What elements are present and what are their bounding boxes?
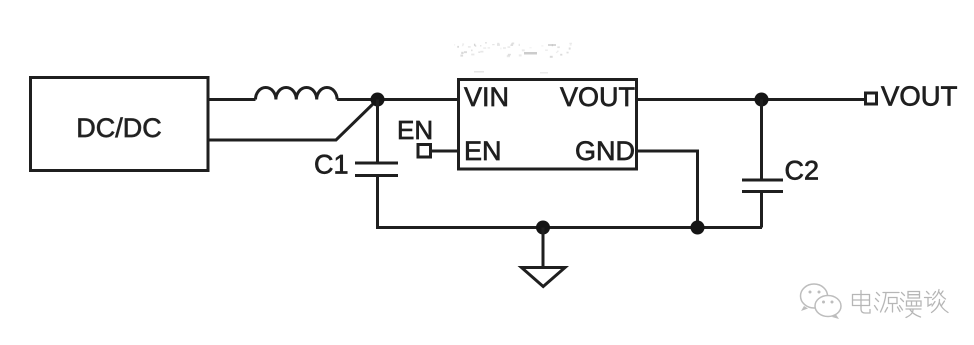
inductor L1 [256, 87, 338, 99]
ground symbol [522, 268, 566, 287]
capacitor C2 [742, 180, 783, 192]
svg-text:C1: C1 [314, 150, 349, 180]
node B junction dot [755, 93, 769, 107]
svg-text:DC/DC: DC/DC [76, 113, 162, 143]
watermark logo chat bubbles [801, 284, 842, 319]
svg-text:VOUT: VOUT [881, 81, 958, 112]
svg-text:EN: EN [397, 115, 433, 145]
wire: node B down to C2 [760, 100, 763, 179]
wire: C1 to ground rail [378, 177, 763, 228]
node D junction dot ground tap [536, 221, 550, 235]
watermark char 漫 [900, 292, 922, 318]
op-amp U1 regulator block [459, 80, 637, 170]
wire: inductor to VIN pin of U1 [337, 98, 458, 101]
wire: node A down to C1 [376, 100, 379, 162]
wire: ground stub [542, 228, 545, 267]
VOUT output terminal square [866, 93, 877, 104]
wire: EN terminal to EN pin [432, 150, 459, 153]
svg-text:EN: EN [464, 136, 502, 166]
wire: C2 to ground rail [760, 193, 763, 228]
watermark char 谈 [925, 290, 949, 313]
wire: GND pin to ground rail [637, 151, 698, 228]
DC/DC converter block [31, 78, 209, 171]
EN input terminal square [418, 145, 431, 158]
svg-text:VOUT: VOUT [560, 82, 635, 112]
watermark char 电 [853, 291, 871, 314]
node A junction dot [371, 93, 385, 107]
svg-text:C2: C2 [785, 156, 820, 186]
watermark text 电源漫谈 [853, 290, 949, 318]
watermark char 源 [875, 293, 901, 313]
faint artifact specks [454, 42, 572, 73]
wire: VOUT pin to VOUT terminal [637, 98, 865, 101]
wire: DC/DC top output to inductor [208, 98, 256, 101]
svg-text:VIN: VIN [464, 82, 509, 112]
node C junction dot on ground rail [691, 221, 705, 235]
svg-text:GND: GND [575, 136, 635, 166]
wire: DC/DC bottom output diagonal feedback to node A [208, 102, 376, 141]
capacitor C1 [355, 163, 398, 176]
